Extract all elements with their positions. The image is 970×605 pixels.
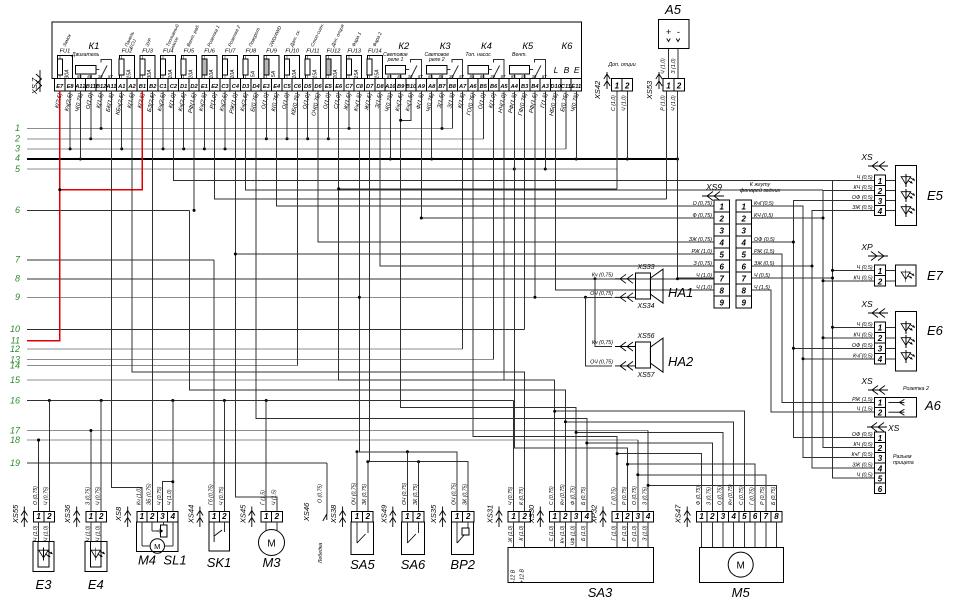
svg-text:D5: D5 [304, 84, 312, 90]
svg-text:2: 2 [415, 512, 421, 521]
svg-text:2: 2 [676, 82, 682, 91]
svg-text:Ч (1,0): Ч (1,0) [696, 285, 712, 291]
svg-text:Кч (1,0): Кч (1,0) [560, 525, 566, 543]
svg-text:НА1: НА1 [668, 285, 693, 300]
svg-text:10А: 10А [292, 69, 298, 79]
svg-text:ВР2: ВР2 [450, 557, 475, 572]
svg-text:К (1,0): К (1,0) [519, 525, 525, 540]
trunk ЗЖ(0,5) [752, 211, 875, 468]
svg-text:1: 1 [552, 512, 557, 521]
fuse FU6 10А (Розетка 1) [202, 24, 221, 78]
fuse FU8 5А (Поворот.) [243, 26, 261, 79]
svg-text:3: 3 [878, 197, 883, 206]
bus line 8 [15, 274, 714, 284]
svg-text:В: В [564, 65, 570, 75]
svg-text:SL1: SL1 [163, 553, 186, 568]
svg-text:З (0,75): З (0,75) [693, 261, 712, 267]
svg-text:XS34: XS34 [636, 303, 654, 310]
svg-text:М: М [154, 542, 160, 551]
svg-text:XS30: XS30 [527, 504, 536, 524]
bus line 6 [15, 205, 190, 215]
svg-text:ОФ (0,5): ОФ (0,5) [852, 432, 873, 438]
svg-text:B3: B3 [521, 84, 529, 90]
wire from pin C5 [286, 91, 288, 139]
svg-text:ОЧ (0,75): ОЧ (0,75) [590, 359, 613, 365]
svg-text:B7: B7 [438, 84, 446, 90]
svg-text:5А: 5А [271, 70, 277, 77]
wire from pin B6 [493, 91, 495, 360]
svg-text:Ч (0,5): Ч (0,5) [857, 265, 873, 271]
svg-text:реле 1: реле 1 [387, 57, 404, 63]
svg-text:10А: 10А [209, 69, 215, 79]
wire D8 to XS9 pin6 [380, 91, 714, 266]
svg-text:3: 3 [742, 227, 747, 236]
fuse FU5 20А (Вент. рад.) [181, 24, 200, 80]
svg-text:Кч (0,75): Кч (0,75) [560, 484, 566, 505]
wire E2 to XS53 pin1 [215, 91, 667, 199]
svg-text:B9: B9 [397, 84, 405, 90]
motor M3 [238, 489, 284, 570]
socket A6 (Розетка 2) [852, 376, 942, 418]
svg-text:2: 2 [741, 215, 747, 224]
svg-text:SK1: SK1 [207, 555, 232, 570]
wire (red) pin B1 branch [58, 91, 142, 191]
wire D2 to bus 6 [193, 91, 195, 210]
wire bus16 to XS31 pin1 [513, 401, 515, 512]
svg-text:C4: C4 [232, 84, 240, 90]
svg-text:1: 1 [742, 203, 747, 212]
svg-text:Розетка 2: Розетка 2 [903, 386, 929, 392]
svg-text:SA6: SA6 [401, 557, 426, 572]
wire from pin B12 [100, 91, 102, 128]
svg-text:85: 85 [511, 74, 516, 79]
wire C4 to M3 pin2 [234, 253, 277, 512]
svg-text:Топ. насос: Топ. насос [465, 52, 491, 58]
wire bus16 drop to SK1 pin2 [223, 401, 225, 512]
svg-text:A3: A3 [541, 84, 550, 90]
svg-text:2: 2 [719, 215, 725, 224]
svg-text:E11: E11 [571, 84, 581, 90]
svg-text:М4: М4 [138, 553, 156, 568]
svg-text:85: 85 [77, 74, 82, 79]
wire XS42 pin1 (С) down [616, 91, 618, 189]
svg-text:85: 85 [470, 74, 475, 79]
svg-text:19: 19 [10, 458, 20, 468]
svg-text:1: 1 [140, 512, 145, 521]
svg-text:ОФ (0,5): ОФ (0,5) [852, 195, 873, 201]
svg-text:ОЧ (0,75): ОЧ (0,75) [590, 291, 613, 297]
svg-text:-12 В: -12 В [511, 569, 517, 582]
svg-text:6: 6 [720, 263, 725, 272]
svg-text:Ч (0,5): Ч (0,5) [857, 322, 873, 328]
svg-text:Ч (1,5): Ч (1,5) [857, 407, 873, 413]
svg-text:E8: E8 [67, 84, 75, 90]
svg-text:XS31: XS31 [486, 505, 495, 525]
svg-text:1: 1 [878, 434, 883, 443]
svg-text:XS57: XS57 [636, 372, 655, 379]
svg-text:5: 5 [720, 251, 725, 260]
svg-text:FU14: FU14 [368, 49, 382, 55]
svg-text:Г (0,75): Г (0,75) [750, 487, 756, 505]
svg-text:XS: XS [887, 423, 900, 433]
fuse FU13 15А (Фара 1) [347, 31, 363, 79]
svg-text:ОФ (0,5): ОФ (0,5) [754, 237, 775, 243]
svg-text:FU5: FU5 [184, 49, 195, 55]
svg-text:ОФ (0,5): ОФ (0,5) [852, 343, 873, 349]
svg-text:2: 2 [98, 512, 104, 521]
trunk РЖ(1,5) to socket A6 [752, 254, 875, 402]
svg-text:2: 2 [709, 512, 715, 521]
svg-text:К5: К5 [522, 41, 534, 52]
svg-text:З (0,75): З (0,75) [85, 487, 91, 505]
svg-text:Е7: Е7 [927, 268, 944, 283]
svg-text:A2: A2 [127, 84, 136, 90]
svg-text:Кч (0,75): Кч (0,75) [728, 484, 734, 505]
svg-text:Лебедка: Лебедка [318, 543, 324, 565]
svg-text:КЧ (0,5): КЧ (0,5) [854, 185, 873, 191]
svg-text:4: 4 [877, 355, 883, 364]
svg-text:FU3: FU3 [142, 49, 153, 55]
svg-text:Р (1,0): Р (1,0) [661, 95, 667, 111]
wire B10 joins B9 [401, 91, 411, 120]
svg-text:6: 6 [15, 205, 20, 215]
svg-text:E5: E5 [325, 84, 333, 90]
svg-text:4: 4 [170, 512, 176, 521]
bus line 19 [10, 458, 327, 468]
bus line 17 [10, 425, 648, 435]
svg-text:1: 1 [615, 82, 620, 91]
wire A5 minus to XS53 pin2 [677, 49, 679, 79]
wire A2 to XS31 pin2 [132, 91, 525, 512]
svg-text:XS35: XS35 [429, 504, 438, 524]
wire from pin C1 [162, 91, 164, 149]
svg-text:З (0,75): З (0,75) [643, 487, 649, 505]
wire from pin C7 [348, 91, 350, 128]
svg-text:3: 3 [160, 512, 165, 521]
pin row of strip A [55, 79, 582, 92]
svg-text:А6: А6 [924, 398, 942, 413]
wire from pin C3 [224, 91, 226, 149]
svg-text:SА3: SА3 [588, 585, 613, 600]
svg-text:1: 1 [36, 512, 41, 521]
svg-text:C7: C7 [345, 84, 353, 90]
svg-text:6: 6 [742, 263, 747, 272]
svg-text:1: 1 [878, 267, 883, 276]
trailer connector XS (Разъем прицепа) [851, 423, 913, 494]
svg-text:5: 5 [878, 475, 883, 484]
svg-text:B11: B11 [86, 84, 96, 90]
svg-text:ЗК (0,75): ЗК (0,75) [413, 483, 419, 505]
svg-text:1: 1 [355, 512, 360, 521]
wire A11 to M4 pin1 [111, 91, 141, 512]
svg-text:6: 6 [753, 512, 758, 521]
wire B2 to M4 pin2 [151, 91, 153, 512]
svg-text:1: 1 [615, 512, 620, 521]
svg-text:Ч (0,75): Ч (0,75) [508, 486, 514, 505]
svg-text:E7: E7 [56, 84, 64, 90]
svg-text:9: 9 [742, 299, 747, 308]
wire from pin A5 [503, 91, 505, 380]
svg-text:2: 2 [624, 82, 630, 91]
svg-text:5: 5 [742, 512, 747, 521]
fuse FU14 15А (Фара 2) [367, 31, 383, 79]
wire to M5 connector XS47 x=744.4 [553, 410, 744, 512]
wire bus9 branch to horns (ОЧ) [584, 296, 612, 366]
svg-text:Ф (0,75): Ф (0,75) [696, 486, 702, 505]
svg-text:М: М [737, 561, 745, 572]
svg-text:7: 7 [720, 275, 725, 284]
wire from pin B11 [90, 91, 92, 139]
svg-text:ЗК (0,75): ЗК (0,75) [463, 483, 469, 505]
svg-text:85: 85 [387, 74, 392, 79]
wire D7 (ЗК net to switches) [366, 91, 468, 512]
svg-text:2: 2 [221, 512, 227, 521]
svg-text:10А: 10А [168, 69, 174, 79]
switch SA6 [379, 482, 426, 572]
svg-text:B1: B1 [139, 84, 146, 90]
svg-text:XS45: XS45 [238, 504, 247, 524]
svg-text:16: 16 [10, 395, 20, 405]
svg-text:86: 86 [521, 74, 526, 79]
svg-text:30: 30 [408, 74, 413, 79]
lamp unit E6 [852, 299, 944, 371]
svg-text:А5: А5 [664, 2, 682, 17]
svg-text:3: 3 [721, 512, 726, 521]
fuse FU10 10А (Дат. ск.) [285, 29, 302, 79]
wire D6 to XS9 pin4 [318, 91, 714, 242]
svg-text:прицепа: прицепа [893, 460, 914, 466]
wire bus16 drop to M3 pin1 [265, 401, 267, 512]
wire C4 to XS9 pin5 [235, 91, 714, 254]
wire from pin E1 [203, 91, 205, 149]
wire from pin A12 [79, 91, 81, 159]
relay К5 [509, 41, 547, 79]
svg-text:87: 87 [542, 74, 547, 79]
svg-text:A5: A5 [499, 84, 508, 90]
svg-text:2: 2 [149, 512, 155, 521]
svg-text:E1: E1 [201, 84, 208, 90]
svg-text:B10: B10 [406, 84, 417, 90]
svg-text:Р (0,75): Р (0,75) [622, 486, 628, 505]
wire from pin D1 [183, 91, 185, 149]
svg-text:РЖ (1,5): РЖ (1,5) [852, 397, 873, 403]
svg-text:1: 1 [511, 512, 516, 521]
svg-text:З (0,75): З (0,75) [707, 487, 713, 505]
lamp E4 [63, 486, 107, 592]
svg-text:1: 1 [666, 82, 671, 91]
svg-text:+: + [666, 27, 671, 37]
wire B4 to bus 9 [534, 91, 536, 297]
svg-text:30А: 30А [65, 69, 71, 79]
svg-text:4: 4 [730, 512, 736, 521]
svg-text:М: М [267, 539, 275, 550]
svg-text:КчГ(0,5): КчГ(0,5) [853, 353, 873, 359]
svg-text:РЖ (1,0): РЖ (1,0) [691, 249, 712, 255]
svg-text:1: 1 [212, 512, 217, 521]
svg-text:Ч (1,5): Ч (1,5) [754, 285, 770, 291]
svg-text:15: 15 [10, 375, 21, 385]
bus line 7 [15, 255, 214, 265]
svg-text:5А: 5А [251, 70, 257, 77]
svg-text:A12: A12 [74, 84, 86, 90]
svg-text:4: 4 [15, 153, 20, 163]
svg-text:Ч (1,5): Ч (1,5) [271, 489, 277, 505]
svg-text:ЗЖ (0,5): ЗЖ (0,5) [852, 205, 873, 211]
svg-text:ХР: ХР [860, 242, 873, 252]
svg-text:Ч (0,75): Ч (0,75) [96, 486, 102, 505]
bus line 9 [15, 292, 625, 302]
svg-text:XS: XS [860, 152, 873, 162]
svg-text:FU6: FU6 [204, 49, 215, 55]
svg-text:К (0,75): К (0,75) [519, 487, 525, 505]
svg-text:Б (0,75): Б (0,75) [771, 486, 777, 505]
svg-text:E6: E6 [335, 84, 343, 90]
relay K6 (L B E) [554, 41, 580, 75]
bus line 12 [10, 344, 463, 354]
svg-text:фонарей задних: фонарей задних [740, 187, 781, 194]
svg-text:Р (0,75): Р (0,75) [760, 486, 766, 505]
svg-text:З (1,0): З (1,0) [671, 58, 677, 74]
svg-text:87: 87 [108, 74, 113, 79]
trunk Ч(0,5) [752, 180, 875, 478]
svg-text:XS44: XS44 [186, 505, 195, 525]
svg-text:D3: D3 [242, 84, 250, 90]
svg-text:D1: D1 [180, 84, 187, 90]
svg-text:8: 8 [720, 287, 725, 296]
svg-text:C6: C6 [294, 84, 302, 90]
wire from pin C6 [296, 91, 298, 366]
svg-text:18: 18 [10, 435, 20, 445]
svg-text:A6: A6 [468, 84, 477, 90]
svg-text:Ч (0,5): Ч (0,5) [754, 273, 770, 279]
svg-text:4: 4 [741, 239, 747, 248]
wire bus6 extension to XS30 pin2 [190, 210, 566, 511]
wire bus16 drop to E3 pin2 [48, 401, 50, 512]
svg-text:Ч (0,5): Ч (0,5) [857, 175, 873, 181]
svg-text:1: 1 [89, 512, 94, 521]
svg-text:Ч (1,0): Ч (1,0) [671, 95, 677, 111]
svg-text:С (0,75): С (0,75) [739, 486, 745, 505]
wire bus18 drop to E3 pin1 [38, 440, 40, 512]
wire from pin B5 [482, 91, 484, 139]
wire to M5 connector XS47 x=776.5 [647, 484, 777, 512]
svg-text:Б (0,75): Б (0,75) [581, 486, 587, 505]
svg-text:КЧ (0,5): КЧ (0,5) [854, 275, 873, 281]
svg-text:L: L [554, 65, 559, 75]
junction B4 bus9 [533, 296, 536, 299]
svg-text:КЧ (0,5): КЧ (0,5) [754, 213, 773, 219]
svg-text:XS53: XS53 [645, 80, 654, 100]
wire bus8 branch to horns (Кч) [594, 277, 613, 346]
svg-text:2: 2 [14, 134, 20, 144]
wire XS53 pin1 (Р) down [666, 91, 668, 199]
wire to M5 connector XS47 x=723 [575, 431, 723, 512]
svg-text:30: 30 [532, 74, 537, 79]
wire from pin A10 [389, 91, 391, 159]
wire B9 to XS30 pin3 [401, 91, 576, 512]
svg-text:Ф (0,75): Ф (0,75) [571, 486, 577, 505]
svg-text:D4: D4 [252, 84, 260, 90]
wire from pin E8 [69, 91, 71, 149]
svg-text:E2: E2 [211, 84, 219, 90]
fuse FU4 10А (Топливный насос) [161, 23, 180, 79]
svg-text:Е: Е [574, 65, 580, 75]
svg-text:17: 17 [10, 425, 21, 435]
svg-text:ОЧ (0,75): ОЧ (0,75) [402, 482, 408, 505]
svg-text:К2: К2 [398, 41, 410, 52]
bus line 10 [10, 324, 525, 334]
connector XS42 (Доп. опции) [593, 62, 636, 111]
svg-text:XS46: XS46 [302, 502, 311, 522]
pump M4 with sensor SL1 [114, 483, 186, 567]
svg-text:ХР32: ХР32 [590, 504, 599, 524]
svg-text:A8: A8 [427, 84, 436, 90]
wire D10 to XS9 pin8 [556, 91, 714, 290]
wire to M5 connector XS47 x=765.8 [636, 473, 766, 511]
svg-text:Вент.: Вент. [512, 52, 527, 58]
svg-text:О (0,75): О (0,75) [717, 486, 723, 505]
svg-text:6: 6 [878, 485, 883, 494]
svg-text:10А: 10А [230, 69, 236, 79]
svg-text:C8: C8 [356, 84, 364, 90]
svg-text:FU7: FU7 [225, 49, 236, 55]
svg-text:Ч (0,75): Ч (0,75) [157, 486, 163, 505]
wire to M5 connector XS47 x=733.7 [564, 420, 734, 511]
svg-text:Е5: Е5 [927, 188, 944, 203]
svg-text:2: 2 [274, 512, 280, 521]
svg-text:Ч (1,0): Ч (1,0) [661, 58, 667, 74]
svg-text:3: 3 [878, 345, 883, 354]
svg-text:A7: A7 [458, 84, 467, 90]
wire XS42 pin2 (Ч) to bus4 [626, 91, 628, 159]
svg-text:9: 9 [720, 299, 725, 308]
svg-text:E3: E3 [263, 84, 271, 90]
svg-text:XS49: XS49 [379, 504, 388, 524]
switch SA5 [329, 482, 375, 572]
connector XS7 [30, 70, 42, 95]
bus line 1 [15, 123, 452, 133]
lamp E7 [854, 242, 944, 286]
svg-text:Доп. опции: Доп. опции [607, 62, 635, 68]
unit A5 [659, 2, 690, 74]
fuse/relay box A (main power strip) [52, 22, 582, 79]
svg-text:Кч (0,75): Кч (0,75) [592, 340, 613, 346]
motor unit M5 [674, 484, 784, 600]
wire bus17 corner to XP32 pin4 [89, 429, 648, 512]
svg-text:XS55: XS55 [11, 504, 20, 524]
fuse FU11 15А (Стоп-сигн.) [305, 23, 325, 79]
svg-text:3: 3 [878, 454, 883, 463]
wire to M5 connector XS47 x=755.1 [626, 463, 755, 512]
svg-text:3: 3 [574, 512, 579, 521]
svg-text:XS56: XS56 [636, 333, 654, 340]
svg-text:FU11: FU11 [306, 49, 319, 55]
svg-text:Г (0,75): Г (0,75) [612, 487, 618, 505]
svg-text:3: 3 [15, 144, 20, 154]
wire from pin D5 [307, 91, 309, 139]
svg-text:Гб (0,75): Гб (0,75) [209, 484, 215, 505]
svg-text:ЗБ (0,75): ЗБ (0,75) [147, 483, 153, 505]
svg-text:15А: 15А [354, 69, 360, 79]
svg-text:1: 1 [720, 203, 725, 212]
svg-text:1: 1 [455, 512, 460, 521]
wire from pin E5 [327, 91, 329, 139]
wire bus17 drop to E4 pin1 [90, 431, 92, 512]
svg-text:1: 1 [878, 324, 883, 333]
wire from pin A3 [544, 91, 546, 169]
svg-text:1: 1 [264, 512, 269, 521]
wire E6 to XS42/XS30 [337, 91, 617, 512]
